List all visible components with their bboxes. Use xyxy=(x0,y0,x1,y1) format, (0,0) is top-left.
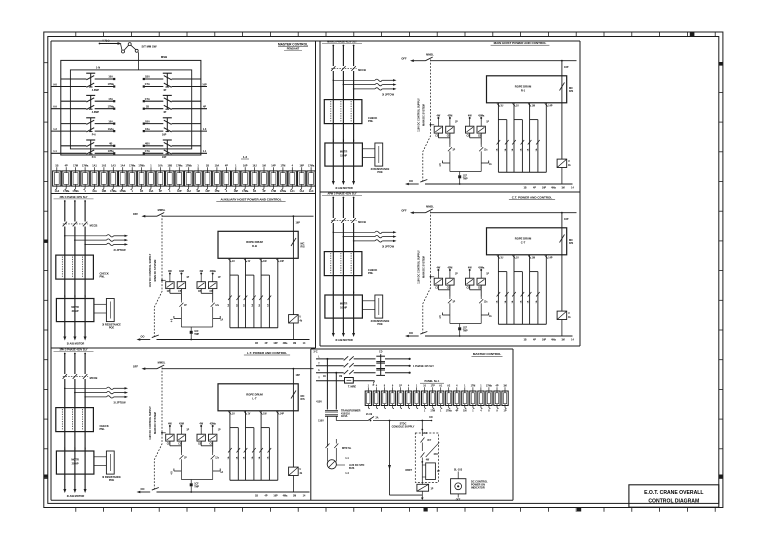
svg-text:16P: 16P xyxy=(542,339,547,342)
svg-text:43Ma: 43Ma xyxy=(478,115,485,118)
svg-text:C7A: C7A xyxy=(145,83,150,86)
svg-text:16P: 16P xyxy=(162,134,167,137)
svg-text:1P: 1P xyxy=(399,385,402,388)
svg-text:15 HP: 15 HP xyxy=(340,155,347,158)
svg-text:1B: 1B xyxy=(140,190,143,193)
master controller contact stack row 2 right xyxy=(143,95,207,114)
LT panel contactor 43M xyxy=(177,434,185,441)
bottom master control console supply rail xyxy=(336,420,368,422)
svg-text:L-T: L-T xyxy=(252,397,257,401)
LT panel thyristor branch 1 xyxy=(169,441,171,446)
svg-text:110V DC CONTROL SUPPLY: 110V DC CONTROL SUPPLY xyxy=(418,250,421,284)
aux hoist panel converge junction node xyxy=(181,326,212,328)
svg-text:L1(+): L1(+) xyxy=(103,39,110,43)
CT panel wire right control xyxy=(561,212,563,214)
svg-text:4W: 4W xyxy=(468,115,472,118)
svg-text:17Ma: 17Ma xyxy=(63,190,70,193)
drawing area frame xyxy=(51,41,580,500)
svg-text:1B: 1B xyxy=(253,190,256,193)
svg-text:C7A: C7A xyxy=(145,98,150,101)
svg-text:1B: 1B xyxy=(523,339,526,342)
border zone tick marks xyxy=(44,32,723,512)
svg-text:17M: 17M xyxy=(214,190,219,193)
aux hoist panel wire right control xyxy=(293,215,295,217)
svg-text:20 HP: 20 HP xyxy=(72,463,79,466)
svg-text:1B0: 1B0 xyxy=(145,76,150,79)
aux hoist panel contactor 4W xyxy=(197,282,205,289)
svg-text:1A: 1A xyxy=(504,148,507,151)
master controller contact stack row 4 right xyxy=(143,140,207,159)
svg-text:POE: POE xyxy=(377,323,383,326)
svg-text:4P: 4P xyxy=(533,187,536,190)
svg-text:TMP: TMP xyxy=(463,178,468,180)
svg-text:4P: 4P xyxy=(265,495,268,498)
aux hoist panel contactor 4W xyxy=(166,282,174,289)
LT panel current transformer CT3 tap xyxy=(84,396,86,398)
sheet outer border frame xyxy=(44,32,723,508)
svg-text:1A4: 1A4 xyxy=(55,190,60,193)
svg-text:16P: 16P xyxy=(234,190,239,193)
aux hoist panel isolator dashed link xyxy=(63,223,88,225)
svg-text:17P: 17P xyxy=(431,385,436,388)
svg-text:16P: 16P xyxy=(273,495,278,498)
svg-text:OO: OO xyxy=(409,180,413,183)
svg-text:17Ma: 17Ma xyxy=(308,165,315,168)
master switch MS xyxy=(121,43,139,53)
svg-text:3PH 3 PHASE 415V SLY: 3PH 3 PHASE 415V SLY xyxy=(59,196,87,199)
svg-text:R-1: R-1 xyxy=(521,89,526,93)
bottom master control charger switch blade xyxy=(421,438,425,443)
svg-text:CD: CD xyxy=(379,352,383,354)
CT panel isolator dashed link xyxy=(331,219,356,221)
svg-text:1A3: 1A3 xyxy=(309,190,314,193)
svg-text:CONSOLE SUPPLY: CONSOLE SUPPLY xyxy=(392,426,415,429)
svg-text:4Ma: 4Ma xyxy=(283,342,288,345)
svg-text:OO: OO xyxy=(141,488,145,491)
master controller contact stack row 2 left xyxy=(51,95,115,114)
svg-text:MTR SL: MTR SL xyxy=(342,447,352,450)
bottom master control supply line 2 xyxy=(316,365,344,367)
aux hoist panel bus feed to contactors xyxy=(161,279,163,281)
svg-text:MCCB: MCCB xyxy=(358,68,366,72)
svg-text:MOTR: MOTR xyxy=(340,303,348,306)
svg-text:10A: 10A xyxy=(215,165,220,168)
svg-text:1P: 1P xyxy=(186,430,189,432)
svg-text:17A: 17A xyxy=(108,98,113,101)
master controller inner box xyxy=(70,70,191,149)
bottom master control charger junction xyxy=(421,461,423,463)
main hoist panel DC control bus (dashed) xyxy=(423,60,431,182)
svg-text:1P: 1P xyxy=(437,471,440,473)
svg-text:1CF: 1CF xyxy=(463,328,468,330)
svg-text:1M: 1M xyxy=(503,385,506,388)
LT panel rotor resistance box xyxy=(106,451,114,474)
LT panel current transformer CT1 tap xyxy=(64,388,66,390)
LT panel phase wire L1 xyxy=(64,353,66,355)
svg-text:1U: 1U xyxy=(500,258,503,260)
svg-text:1CF: 1CF xyxy=(194,484,199,486)
svg-text:PNL: PNL xyxy=(100,427,106,431)
svg-text:14P: 14P xyxy=(280,413,285,416)
svg-text:MASTER CONTROL: MASTER CONTROL xyxy=(473,352,501,356)
svg-text:1A: 1A xyxy=(266,456,269,459)
bottom master control rail junction dot xyxy=(421,420,423,422)
svg-text:1A: 1A xyxy=(535,148,538,151)
svg-text:OFF: OFF xyxy=(133,365,139,369)
svg-text:1-1: 1-1 xyxy=(53,150,57,153)
svg-text:1A: 1A xyxy=(258,456,261,459)
svg-text:10A: 10A xyxy=(158,165,163,168)
CT panel current transformer CT2 tap xyxy=(343,236,345,238)
svg-text:4B0: 4B0 xyxy=(145,143,150,146)
aux hoist panel rotor resistor bank xyxy=(229,258,231,328)
aux hoist panel phase wire L1 xyxy=(64,200,66,202)
aux hoist panel DC control bus (dashed) xyxy=(154,215,162,337)
svg-text:3l A/B MOTOR: 3l A/B MOTOR xyxy=(67,342,85,346)
svg-text:ROPE DRUM: ROPE DRUM xyxy=(246,240,263,244)
bottom master control charger side block xyxy=(426,463,436,480)
LT panel motor-resistance link wires xyxy=(94,456,107,458)
svg-text:CONTROL DIAGRAM: CONTROL DIAGRAM xyxy=(648,498,699,504)
svg-text:1A2: 1A2 xyxy=(102,165,107,168)
svg-text:17Ma: 17Ma xyxy=(280,190,287,193)
svg-text:1M: 1M xyxy=(262,165,265,168)
svg-text:17M: 17M xyxy=(280,165,285,168)
svg-text:1A: 1A xyxy=(511,148,514,151)
main hoist panel contactor 4W xyxy=(434,126,442,133)
bottom master control charger input wire xyxy=(421,421,423,437)
svg-text:1V: 1V xyxy=(248,261,251,263)
svg-text:1P: 1P xyxy=(452,302,455,304)
svg-text:1M: 1M xyxy=(561,339,564,342)
svg-text:1B: 1B xyxy=(255,495,258,498)
bottom master control supply line 1 xyxy=(316,358,344,360)
main hoist panel resistor bank contacts xyxy=(497,140,501,145)
aux hoist panel controller box D-B xyxy=(218,231,298,258)
svg-text:1B: 1B xyxy=(206,165,209,168)
master controller contact stack row 1 left xyxy=(51,73,115,92)
svg-text:16P: 16P xyxy=(564,66,569,69)
svg-text:4Ma: 4Ma xyxy=(551,187,556,190)
svg-text:P-6: P-6 xyxy=(92,134,97,137)
svg-text:3l JPTOW: 3l JPTOW xyxy=(382,93,395,97)
svg-text:17Ma: 17Ma xyxy=(110,190,117,193)
svg-text:1A: 1A xyxy=(504,300,507,303)
svg-text:1U: 1U xyxy=(232,414,235,416)
CT panel converge junction node xyxy=(450,323,481,325)
svg-text:ROPE DRUM: ROPE DRUM xyxy=(515,237,532,241)
CT panel phase wire L1 xyxy=(332,197,334,199)
svg-text:1-4: 1-4 xyxy=(345,472,349,475)
LT panel resistor bank contacts xyxy=(228,448,232,453)
svg-text:1CF: 1CF xyxy=(463,176,468,178)
svg-text:17Ma: 17Ma xyxy=(129,165,136,168)
svg-text:1 PHASE 415 SLY: 1 PHASE 415 SLY xyxy=(413,365,434,368)
svg-text:1M: 1M xyxy=(196,190,199,193)
svg-text:4W: 4W xyxy=(437,267,441,270)
aux hoist panel motor box 30 HP xyxy=(56,299,94,322)
main hoist panel thyristor branch 1 xyxy=(437,133,439,138)
svg-text:3°C: 3°C xyxy=(313,350,317,354)
aux hoist panel thyristor branch 1 xyxy=(169,289,171,294)
svg-text:PNL: PNL xyxy=(368,119,374,123)
aux hoist panel rotor resistance box xyxy=(106,299,114,322)
LT panel rotor resistor bank xyxy=(229,411,231,481)
svg-text:1B: 1B xyxy=(146,105,149,108)
svg-text:21-09: 21-09 xyxy=(366,413,373,416)
bottom master control control fuse line xyxy=(316,380,345,382)
svg-text:1-3: 1-3 xyxy=(203,128,207,131)
svg-text:16P: 16P xyxy=(273,342,278,345)
aux hoist panel thyristor branch 2 xyxy=(200,289,202,294)
svg-text:17M: 17M xyxy=(73,165,78,168)
bottom master control transformer TR1 xyxy=(325,411,338,417)
CT panel thyristor branch 1 xyxy=(437,285,439,290)
svg-text:1CF: 1CF xyxy=(194,331,199,333)
svg-text:43Ma: 43Ma xyxy=(210,270,217,273)
svg-text:14P: 14P xyxy=(548,105,553,108)
svg-text:43M: 43M xyxy=(447,267,452,270)
svg-text:3l A/B MOTOR: 3l A/B MOTOR xyxy=(335,338,353,342)
bottom master control charger diagonal linkage xyxy=(426,442,440,457)
svg-text:MASTER CONTROL: MASTER CONTROL xyxy=(278,43,308,47)
svg-text:P-6: P-6 xyxy=(92,156,97,159)
CT panel contactor 4W xyxy=(466,278,474,285)
svg-text:4P: 4P xyxy=(65,165,68,168)
svg-text:4P: 4P xyxy=(455,410,458,413)
CT panel phase wire L3 xyxy=(353,197,355,199)
bottom master control relay bottom wire xyxy=(390,494,423,496)
main hoist panel incomer panel box xyxy=(324,100,362,124)
CT panel motor-resistance link wires xyxy=(362,300,375,302)
svg-text:1A: 1A xyxy=(495,300,498,303)
CT panel rotor resistance box xyxy=(375,295,383,318)
svg-text:1A2: 1A2 xyxy=(299,190,304,193)
svg-text:3l A/B MOTOR: 3l A/B MOTOR xyxy=(67,494,85,498)
LT panel motor box 20 HP xyxy=(56,451,94,474)
svg-text:MCCB: MCCB xyxy=(90,224,98,228)
svg-text:4P: 4P xyxy=(265,342,268,345)
svg-text:17Ma: 17Ma xyxy=(242,190,249,193)
svg-text:1A: 1A xyxy=(227,456,230,459)
main hoist panel current transformer CT3 tap xyxy=(353,88,355,90)
master controller outer box xyxy=(61,60,201,155)
svg-text:3l JPTOW: 3l JPTOW xyxy=(113,401,126,405)
svg-text:1A: 1A xyxy=(235,304,238,307)
svg-text:1-N: 1-N xyxy=(96,65,100,69)
svg-text:110V DC CONTROL SUPPLY: 110V DC CONTROL SUPPLY xyxy=(418,98,421,132)
main hoist panel current transformer CT2 tap xyxy=(343,84,345,86)
LT panel contactor 43Ma xyxy=(209,434,217,441)
svg-text:1V: 1V xyxy=(516,106,519,108)
main hoist panel phase wire L3 xyxy=(353,45,355,47)
svg-text:PNL: PNL xyxy=(368,271,374,275)
svg-text:R/Y: R/Y xyxy=(428,440,432,442)
svg-text:MOTR: MOTR xyxy=(71,459,79,462)
CT panel motor box 10 HP xyxy=(325,295,363,318)
svg-text:4FO: 4FO xyxy=(434,453,439,456)
aux hoist panel motor-resistance link wires xyxy=(94,303,107,305)
main hoist panel current transformer CT1 tap xyxy=(333,80,335,82)
svg-text:1A: 1A xyxy=(251,456,254,459)
aux hoist panel incomer panel inner dashes xyxy=(61,257,63,279)
CT panel resistor bank contacts xyxy=(497,292,501,297)
svg-text:MMSL: MMSL xyxy=(426,204,434,208)
CT panel current transformer CT1 tap xyxy=(333,232,335,234)
svg-text:10A: 10A xyxy=(92,190,97,193)
svg-text:4W: 4W xyxy=(168,270,172,273)
svg-text:D-B: D-B xyxy=(252,244,257,248)
LT panel phase wire L2 xyxy=(74,353,76,355)
svg-text:1A: 1A xyxy=(535,300,538,303)
svg-text:1A: 1A xyxy=(258,304,261,307)
svg-text:1V: 1V xyxy=(248,414,251,416)
svg-text:OBDT: OBDT xyxy=(405,469,412,472)
svg-text:PENDANT: PENDANT xyxy=(287,47,300,51)
svg-text:MMSL: MMSL xyxy=(158,360,166,364)
aux hoist panel resistor bank contacts xyxy=(228,296,232,301)
svg-text:3l JPTOW: 3l JPTOW xyxy=(113,248,126,252)
svg-text:16P: 16P xyxy=(542,187,547,190)
svg-text:1B: 1B xyxy=(523,187,526,190)
svg-text:1P: 1P xyxy=(184,458,187,460)
svg-text:MAIN DC SYSTEM: MAIN DC SYSTEM xyxy=(154,412,157,434)
svg-text:4P: 4P xyxy=(163,89,166,92)
svg-text:1A: 1A xyxy=(243,304,246,307)
svg-text:MSB: MSB xyxy=(161,55,167,59)
CT panel incomer panel box xyxy=(324,252,362,276)
bottom master control charger blade 2 xyxy=(421,453,425,458)
svg-text:1A4: 1A4 xyxy=(120,165,125,168)
svg-text:3l JPTOW: 3l JPTOW xyxy=(382,245,395,249)
main hoist panel controller box R-1 xyxy=(487,76,567,103)
svg-text:110V DC CONTROL SUPPLY: 110V DC CONTROL SUPPLY xyxy=(149,253,152,287)
svg-text:1P: 1P xyxy=(218,277,221,279)
svg-text:1A: 1A xyxy=(519,300,522,303)
svg-text:4P: 4P xyxy=(203,106,206,109)
main hoist panel controller internal switch xyxy=(560,83,565,91)
svg-text:16P: 16P xyxy=(296,222,301,225)
svg-text:1B: 1B xyxy=(255,342,258,345)
main hoist panel phase wire L1 xyxy=(332,45,334,47)
svg-text:4-6MP: 4-6MP xyxy=(92,89,100,92)
aux hoist panel phase wire L2 xyxy=(74,200,76,202)
aux hoist panel phase wire L3 xyxy=(84,200,86,202)
svg-text:43M: 43M xyxy=(447,115,452,118)
svg-text:1A: 1A xyxy=(511,300,514,303)
svg-text:17Ma: 17Ma xyxy=(486,385,493,388)
LT panel contactor 4W xyxy=(197,434,205,441)
svg-text:1P: 1P xyxy=(431,489,434,491)
svg-text:9-8: 9-8 xyxy=(53,83,57,86)
svg-text:1A: 1A xyxy=(243,456,246,459)
svg-text:4Ma: 4Ma xyxy=(551,339,556,342)
svg-text:4W: 4W xyxy=(199,423,203,426)
svg-text:10Aa: 10Aa xyxy=(108,128,115,131)
svg-text:OFF: OFF xyxy=(401,209,407,213)
svg-text:R/S: R/S xyxy=(569,242,574,245)
LT panel incomer panel box xyxy=(56,408,94,432)
svg-text:MCCB: MCCB xyxy=(90,376,98,380)
svg-text:415V: 415V xyxy=(316,401,322,404)
main hoist panel isolator dashed link xyxy=(331,67,356,69)
svg-text:1A3: 1A3 xyxy=(111,165,116,168)
svg-text:1A: 1A xyxy=(227,304,230,307)
main hoist panel contactor 43Ma xyxy=(477,126,485,133)
svg-text:TMP: TMP xyxy=(463,330,468,332)
svg-text:1-2: 1-2 xyxy=(243,155,248,159)
main hoist panel contactor 4W xyxy=(466,126,474,133)
svg-text:17M: 17M xyxy=(430,410,435,413)
svg-text:4-6MP: 4-6MP xyxy=(92,111,100,114)
svg-text:17Ma: 17Ma xyxy=(446,410,453,413)
svg-text:43Ma: 43Ma xyxy=(478,267,485,270)
svg-text:4P: 4P xyxy=(163,111,166,114)
svg-text:10A: 10A xyxy=(149,190,154,193)
svg-text:4P: 4P xyxy=(225,165,228,168)
svg-text:3PH 3 PHASE 415V SLY: 3PH 3 PHASE 415V SLY xyxy=(59,349,87,352)
svg-text:1-1: 1-1 xyxy=(203,150,207,153)
master controller contact stack row 4 left xyxy=(51,140,115,159)
svg-text:1P: 1P xyxy=(186,277,189,279)
svg-text:E.O.T. CRANE OVERALL: E.O.T. CRANE OVERALL xyxy=(644,490,703,496)
svg-text:C-T: C-T xyxy=(521,241,526,245)
svg-text:17Mb: 17Mb xyxy=(186,165,193,168)
svg-text:1A: 1A xyxy=(489,315,492,318)
svg-text:17Ma: 17Ma xyxy=(176,165,183,168)
svg-text:14P: 14P xyxy=(280,260,285,263)
svg-text:1A: 1A xyxy=(251,304,254,307)
aux hoist panel contactor 43Ma xyxy=(209,282,217,289)
LT panel thyristor branch 2 xyxy=(200,441,202,446)
svg-text:POE: POE xyxy=(109,479,115,482)
svg-text:AUXILIARY HOIST POWER AND CONT: AUXILIARY HOIST POWER AND CONTROL xyxy=(220,197,281,201)
svg-text:110V DC CONTROL SUPPLY: 110V DC CONTROL SUPPLY xyxy=(149,406,152,440)
svg-text:TMP: TMP xyxy=(194,334,199,336)
svg-text:1A: 1A xyxy=(266,304,269,307)
svg-text:17Ma: 17Ma xyxy=(82,165,89,168)
svg-text:4P: 4P xyxy=(496,385,499,388)
main hoist panel bus feed to contactors xyxy=(430,124,432,126)
main hoist panel thyristor branch 2 xyxy=(469,133,471,138)
CT panel rotor resistor bank xyxy=(497,255,499,324)
LT panel relay coil xyxy=(289,467,299,475)
svg-text:AO: AO xyxy=(424,432,428,435)
svg-text:4P: 4P xyxy=(262,190,265,193)
svg-text:OFF: OFF xyxy=(133,212,139,216)
bottom master control supply line 3 xyxy=(316,372,344,374)
svg-text:16P: 16P xyxy=(564,218,569,221)
svg-text:MAIN HOIST POWER AND CONTROL: MAIN HOIST POWER AND CONTROL xyxy=(494,41,547,45)
svg-text:POE: POE xyxy=(109,327,115,330)
svg-text:PNL: PNL xyxy=(100,275,106,279)
svg-text:TMP: TMP xyxy=(194,486,199,488)
svg-text:1U: 1U xyxy=(232,261,235,263)
svg-text:16P: 16P xyxy=(177,190,182,193)
svg-text:4W: 4W xyxy=(437,115,441,118)
LT panel DC control bus (dashed) xyxy=(154,368,162,490)
svg-text:1A1: 1A1 xyxy=(92,165,97,168)
svg-text:MOTR: MOTR xyxy=(340,151,348,154)
aux hoist panel relay coil xyxy=(289,315,299,323)
LT panel incomer panel inner dashes xyxy=(61,409,63,431)
svg-text:16P: 16P xyxy=(296,374,301,377)
svg-text:16P: 16P xyxy=(162,156,167,159)
svg-text:1P: 1P xyxy=(184,305,187,307)
CT panel incomer panel inner dashes xyxy=(330,253,332,275)
svg-text:1A: 1A xyxy=(527,300,530,303)
svg-text:14P: 14P xyxy=(205,190,210,193)
